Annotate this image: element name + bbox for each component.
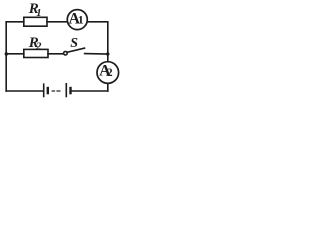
svg-text:2: 2 <box>107 67 113 79</box>
svg-text:1: 1 <box>78 12 84 26</box>
svg-text:2: 2 <box>35 41 42 52</box>
svg-text:S: S <box>70 36 78 51</box>
svg-text:1: 1 <box>36 8 41 19</box>
